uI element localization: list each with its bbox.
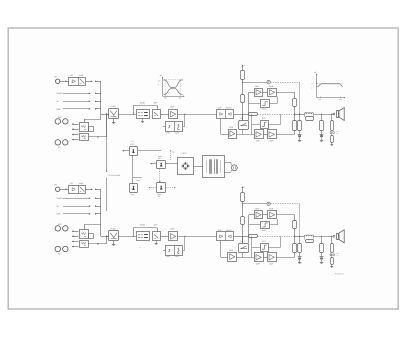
resistor R-damp <box>306 117 314 121</box>
wire tape monitor line <box>84 119 86 122</box>
svg-text:VOL: VOL <box>166 131 170 134</box>
wire driver link <box>263 214 268 216</box>
capacitor C-zobel <box>321 131 323 135</box>
ground phones <box>331 265 333 267</box>
node L-channel input section <box>54 74 108 149</box>
ground shunt <box>299 138 301 141</box>
wire rail drop right <box>299 204 301 237</box>
wire interchannel bus lower <box>106 178 108 211</box>
switch S1 aux box <box>89 234 94 239</box>
wire feedback vertical <box>248 92 250 120</box>
ground tone <box>156 241 158 244</box>
resistor R-phones 2 <box>331 258 334 265</box>
wire main line dashed <box>258 236 295 238</box>
svg-text:FUNC: FUNC <box>110 105 116 108</box>
wire protect to right <box>138 150 162 152</box>
wire input bus vertical <box>100 81 102 119</box>
wire selector to tone <box>119 114 137 116</box>
resistor R-phones 1 <box>331 121 334 131</box>
wire main line to resistor <box>234 114 249 116</box>
wire low amp row <box>236 257 254 259</box>
svg-text:P1500-1A: P1500-1A <box>335 272 345 275</box>
op-amp buffer pair <box>217 232 234 241</box>
lamp indicator <box>267 202 270 205</box>
wire pb arrows 2 <box>72 241 79 243</box>
svg-text:SW: SW <box>158 157 161 160</box>
wire bias stubs 2 <box>252 124 261 126</box>
svg-text:AMP: AMP <box>170 105 175 108</box>
wire bias stubs 2 <box>252 247 261 249</box>
svg-text:MUTE: MUTE <box>226 107 232 110</box>
wire ac dashed arrow <box>170 151 172 161</box>
connector AC plug <box>232 165 238 171</box>
wire volume taps <box>184 113 185 114</box>
wire flat amp to buffer <box>178 236 217 238</box>
wire bias stubs 1 <box>249 224 260 226</box>
wire rail drop right <box>299 82 301 114</box>
wire eq amp to bus <box>86 81 93 83</box>
wire rec out arrows 1 <box>72 124 79 126</box>
switch S2 tape play <box>80 241 89 248</box>
resistor R-bias <box>242 82 244 95</box>
wire output line <box>295 114 305 116</box>
svg-text:S2: S2 <box>139 245 141 248</box>
wire rec out arrows 1 <box>72 231 79 233</box>
wire interchannel bus upper <box>106 114 108 172</box>
relay block protect A2 <box>130 184 138 193</box>
wire tap vertical <box>251 236 253 257</box>
wire transformer to plug lower <box>224 172 231 174</box>
resistor R-phones 1 <box>331 244 334 253</box>
switch S1 aux box <box>89 127 94 132</box>
wire power sw to bridge <box>166 163 178 165</box>
capacitor C-shunt <box>299 131 301 135</box>
wire low amp row <box>236 134 254 136</box>
IC bias curve 2 <box>261 244 269 252</box>
wire zobel drop <box>321 236 323 243</box>
svg-text:AMP: AMP <box>79 74 84 77</box>
wire driver input <box>249 92 255 94</box>
switch S1 tape rec <box>80 230 89 239</box>
volume pot VR1 <box>166 122 183 132</box>
resistor R-fb lower <box>293 244 297 253</box>
relay RY1 <box>239 121 249 130</box>
resistor R-shunt <box>298 121 302 131</box>
node L power amp section <box>234 64 302 143</box>
svg-text:AMP: AMP <box>79 182 84 185</box>
wire feedback vertical <box>248 215 250 243</box>
wire tape play return <box>88 136 106 138</box>
wire power out <box>276 214 294 216</box>
inductor L1 <box>304 235 313 236</box>
svg-text:VOL: VOL <box>166 255 170 258</box>
IC bias curve 2 <box>261 121 269 129</box>
IC bias curve 1 <box>261 222 270 229</box>
node R-channel input section <box>54 182 108 255</box>
node sub branch <box>133 177 142 179</box>
wire driver link <box>263 92 268 94</box>
svg-text:TAPE: TAPE <box>56 213 61 216</box>
node L output network <box>295 108 345 146</box>
wire power sw dashes lr <box>149 187 157 189</box>
op-amp buffer pair <box>217 110 234 119</box>
wire power out <box>276 92 294 94</box>
switch S2 tape play <box>80 134 89 141</box>
volume pot VR1 <box>166 246 183 256</box>
resistor R-out upper <box>293 99 297 107</box>
wire main line to resistor <box>234 236 249 238</box>
wire bias stubs 1 <box>249 103 260 105</box>
resistor R-series <box>249 113 258 116</box>
node R power amp section <box>234 186 302 266</box>
wire tape monitor line <box>84 225 86 230</box>
wire phones drop <box>331 236 333 243</box>
svg-text:TO R-CH AMP: TO R-CH AMP <box>108 174 121 177</box>
svg-text:TONE: TONE <box>140 101 146 104</box>
wire output line <box>295 236 305 238</box>
speaker SP <box>337 111 339 118</box>
wire volume taps <box>184 236 185 237</box>
resistor R-fb lower <box>293 121 297 131</box>
wire protect stub left <box>122 150 129 152</box>
wire phono to eq amp <box>60 81 69 83</box>
wire pb arrows 2 <box>72 134 79 136</box>
wire tape play return <box>88 243 106 245</box>
switch power B2 <box>157 183 166 193</box>
node speaker terminal <box>333 113 335 115</box>
IC bias curve 1 <box>261 100 270 108</box>
wire bus to selector <box>101 114 109 116</box>
op-amp U-EQ phono equalizer <box>69 186 86 194</box>
svg-text:BAL: BAL <box>175 131 179 134</box>
wire transformer to plug upper <box>224 162 231 164</box>
svg-text:TAPE: TAPE <box>56 108 61 111</box>
inductor L1 <box>304 113 313 114</box>
wire rail dashed <box>270 82 299 84</box>
wire tone bypass <box>133 113 134 114</box>
svg-text:TONE: TONE <box>140 224 146 227</box>
node phones jack <box>330 254 332 256</box>
wire supply rail <box>243 203 267 205</box>
node R output network <box>295 230 345 268</box>
wire phono to eq amp <box>60 189 69 191</box>
ground selector <box>113 241 115 245</box>
resistor R-bias <box>242 204 244 217</box>
op-amp low 2 <box>268 253 277 262</box>
ground selector <box>113 118 115 122</box>
transformer T1 <box>203 156 225 178</box>
wire buffer tap down L <box>220 118 222 134</box>
node L-channel tone section <box>106 101 234 134</box>
wire phones drop <box>331 114 333 121</box>
graph tone control curves <box>158 74 185 99</box>
op-amp low 1 <box>255 253 264 262</box>
switch S1 tape rec <box>80 123 89 132</box>
wire power sw arrow left <box>150 163 157 165</box>
wire main line dashed <box>258 114 295 116</box>
resistor R-damp <box>306 240 314 243</box>
op-amp U-EQ phono equalizer <box>69 78 86 86</box>
svg-text:MUTE: MUTE <box>226 229 232 232</box>
wire relay stubs <box>242 236 244 243</box>
svg-text:BAL: BAL <box>175 255 179 258</box>
graph frequency response <box>311 71 345 101</box>
wire input bus vertical <box>100 189 102 236</box>
op-amp low 1 <box>255 130 264 139</box>
ground tone <box>142 118 144 121</box>
svg-text:AMP: AMP <box>170 228 175 231</box>
wire selector to tone <box>119 236 137 238</box>
wire tone to flat amp <box>161 114 169 116</box>
node REC jacks pair 2 <box>55 140 60 145</box>
ground zobel <box>321 260 323 263</box>
capacitor C-shunt <box>299 253 301 257</box>
svg-text:S1-2: S1-2 <box>131 140 135 143</box>
wire eq amp to bus <box>86 189 93 191</box>
wire flat amp to buffer <box>178 114 217 116</box>
wire rail dashed <box>270 203 299 205</box>
relay RY1 <box>239 244 249 253</box>
wire supply rail <box>243 82 267 84</box>
wire switch link dashed <box>159 169 161 183</box>
node REC jacks pair 2 <box>55 246 60 251</box>
wire relay stubs <box>242 114 244 120</box>
capacitor C-zobel <box>321 253 323 257</box>
wire zobel drop <box>321 114 323 121</box>
svg-text:PWR: PWR <box>269 207 274 210</box>
node speaker terminal <box>333 235 335 237</box>
ground shunt <box>299 260 301 263</box>
ground phones <box>331 143 333 145</box>
svg-text:TUNER: TUNER <box>56 197 63 200</box>
wire bus to selector <box>101 236 109 238</box>
lamp indicator <box>267 80 270 83</box>
ground zobel <box>321 137 323 140</box>
wire tone bypass <box>133 236 134 237</box>
power supply arrow <box>241 186 243 188</box>
speaker SP <box>337 234 339 240</box>
resistor R-series <box>249 235 258 238</box>
wire tone to flat amp <box>161 236 169 238</box>
wire driver input <box>249 214 255 216</box>
resistor R-shunt <box>298 244 302 253</box>
resistor R-phones 2 <box>331 136 334 143</box>
wire buffer tap down R <box>220 241 222 258</box>
wire bridge to transformer <box>193 166 203 168</box>
svg-text:TUNER: TUNER <box>56 92 63 95</box>
resistor R-zobel <box>320 244 324 253</box>
resistor R-zobel <box>320 121 324 131</box>
node phones jack <box>330 132 332 134</box>
wire protect link down <box>132 156 134 184</box>
svg-text:SW: SW <box>157 195 160 198</box>
power supply arrow <box>241 65 243 67</box>
node R-channel tone section <box>106 224 234 259</box>
op-amp low 2 <box>268 130 277 139</box>
wire tap vertical <box>251 114 253 134</box>
resistor R-supply <box>241 71 245 80</box>
svg-text:PWR: PWR <box>269 85 274 88</box>
resistor R-supply <box>241 193 245 202</box>
svg-text:FUNC: FUNC <box>110 227 116 230</box>
resistor R-out upper <box>293 221 297 229</box>
